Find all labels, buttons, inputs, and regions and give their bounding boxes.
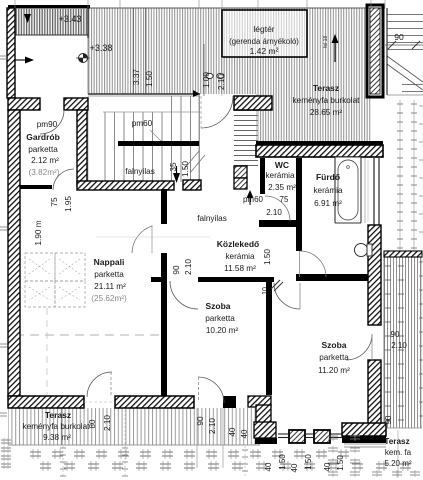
svg-text:2.10: 2.10 <box>391 341 407 350</box>
svg-text:keményfa burkolat: keményfa burkolat <box>293 96 361 105</box>
svg-text:2.10: 2.10 <box>184 259 193 275</box>
svg-text:2.12 m²: 2.12 m² <box>31 156 59 165</box>
svg-text:Közlekedő: Közlekedő <box>217 239 260 249</box>
svg-text:parketta: parketta <box>28 145 58 154</box>
svg-text:falnyilas: falnyilas <box>125 167 155 176</box>
svg-text:falnyilas: falnyilas <box>197 214 227 223</box>
svg-text:40: 40 <box>264 462 273 471</box>
svg-text:Szoba: Szoba <box>205 301 230 311</box>
svg-text:2.10: 2.10 <box>266 208 282 217</box>
svg-text:40: 40 <box>323 462 332 471</box>
svg-text:(gerenda árnyékoló): (gerenda árnyékoló) <box>229 37 299 46</box>
svg-text:WC: WC <box>275 160 289 170</box>
svg-text:kerámia: kerámia <box>265 171 295 180</box>
svg-text:90: 90 <box>196 416 205 426</box>
svg-text:9.38 m²: 9.38 m² <box>43 433 71 442</box>
svg-text:1.50: 1.50 <box>145 71 154 87</box>
svg-text:6.91 m²: 6.91 m² <box>314 199 342 208</box>
svg-text:keményfa burkolat: keményfa burkolat <box>23 422 91 431</box>
svg-text:40: 40 <box>240 429 249 438</box>
svg-text:Terasz: Terasz <box>45 410 71 420</box>
svg-text:1.50: 1.50 <box>336 455 345 471</box>
svg-text:parketta: parketta <box>94 270 124 279</box>
svg-text:90: 90 <box>394 32 404 42</box>
svg-text:2.10: 2.10 <box>208 418 217 434</box>
svg-text:(25.62m²): (25.62m²) <box>91 294 127 303</box>
svg-text:légtér: légtér <box>253 24 274 34</box>
svg-text:75: 75 <box>280 195 289 204</box>
svg-text:pm60: pm60 <box>243 195 264 204</box>
svg-text:3.37: 3.37 <box>132 69 141 85</box>
svg-text:+3.38: +3.38 <box>90 43 113 53</box>
svg-text:35: 35 <box>169 162 178 172</box>
svg-text:75: 75 <box>50 197 59 207</box>
svg-text:1.50: 1.50 <box>263 249 272 265</box>
svg-text:90: 90 <box>172 265 181 275</box>
svg-text:1.00: 1.00 <box>202 72 211 88</box>
svg-text:2.10: 2.10 <box>103 415 112 431</box>
svg-text:2.35 m²: 2.35 m² <box>268 183 296 192</box>
svg-text:pm60: pm60 <box>132 119 153 128</box>
svg-text:Szoba: Szoba <box>321 340 346 350</box>
svg-text:parketta: parketta <box>319 353 349 362</box>
svg-text:1.42 m²: 1.42 m² <box>250 46 279 56</box>
svg-text:+3.43: +3.43 <box>59 14 82 24</box>
svg-text:1.95: 1.95 <box>64 196 73 212</box>
svg-text:(3.82m²): (3.82m²) <box>29 168 60 177</box>
svg-text:11.58 m²: 11.58 m² <box>224 264 256 273</box>
svg-text:40: 40 <box>290 463 299 472</box>
svg-text:pm90: pm90 <box>37 120 58 129</box>
svg-text:40: 40 <box>228 427 237 436</box>
svg-text:Nappali: Nappali <box>94 257 125 267</box>
svg-text:Gardrób: Gardrób <box>26 132 60 142</box>
svg-text:90: 90 <box>391 330 400 339</box>
svg-text:10: 10 <box>262 287 269 295</box>
svg-text:90: 90 <box>384 415 393 424</box>
svg-text:kerámia: kerámia <box>225 252 255 261</box>
svg-text:Terasz: Terasz <box>384 437 409 446</box>
svg-text:1.50: 1.50 <box>278 454 287 470</box>
svg-text:kerámia: kerámia <box>313 186 343 195</box>
svg-text:Fürdő: Fürdő <box>316 172 340 182</box>
svg-text:11.20 m²: 11.20 m² <box>318 366 350 375</box>
svg-text:5.20 m²: 5.20 m² <box>384 459 411 468</box>
svg-text:10.20 m²: 10.20 m² <box>206 326 239 335</box>
svg-text:fel 18: fel 18 <box>323 36 329 48</box>
svg-text:80: 80 <box>88 419 97 428</box>
svg-text:21.11 m²: 21.11 m² <box>94 282 126 291</box>
svg-text:parketta: parketta <box>205 314 235 323</box>
svg-text:1.50: 1.50 <box>181 161 190 177</box>
svg-text:1.50: 1.50 <box>304 454 313 470</box>
svg-text:1.90 m: 1.90 m <box>34 220 43 245</box>
svg-text:Terasz: Terasz <box>313 83 339 93</box>
svg-text:2.10: 2.10 <box>217 74 226 90</box>
svg-text:28.65 m²: 28.65 m² <box>310 108 343 117</box>
svg-text:kem. fa: kem. fa <box>385 448 412 457</box>
